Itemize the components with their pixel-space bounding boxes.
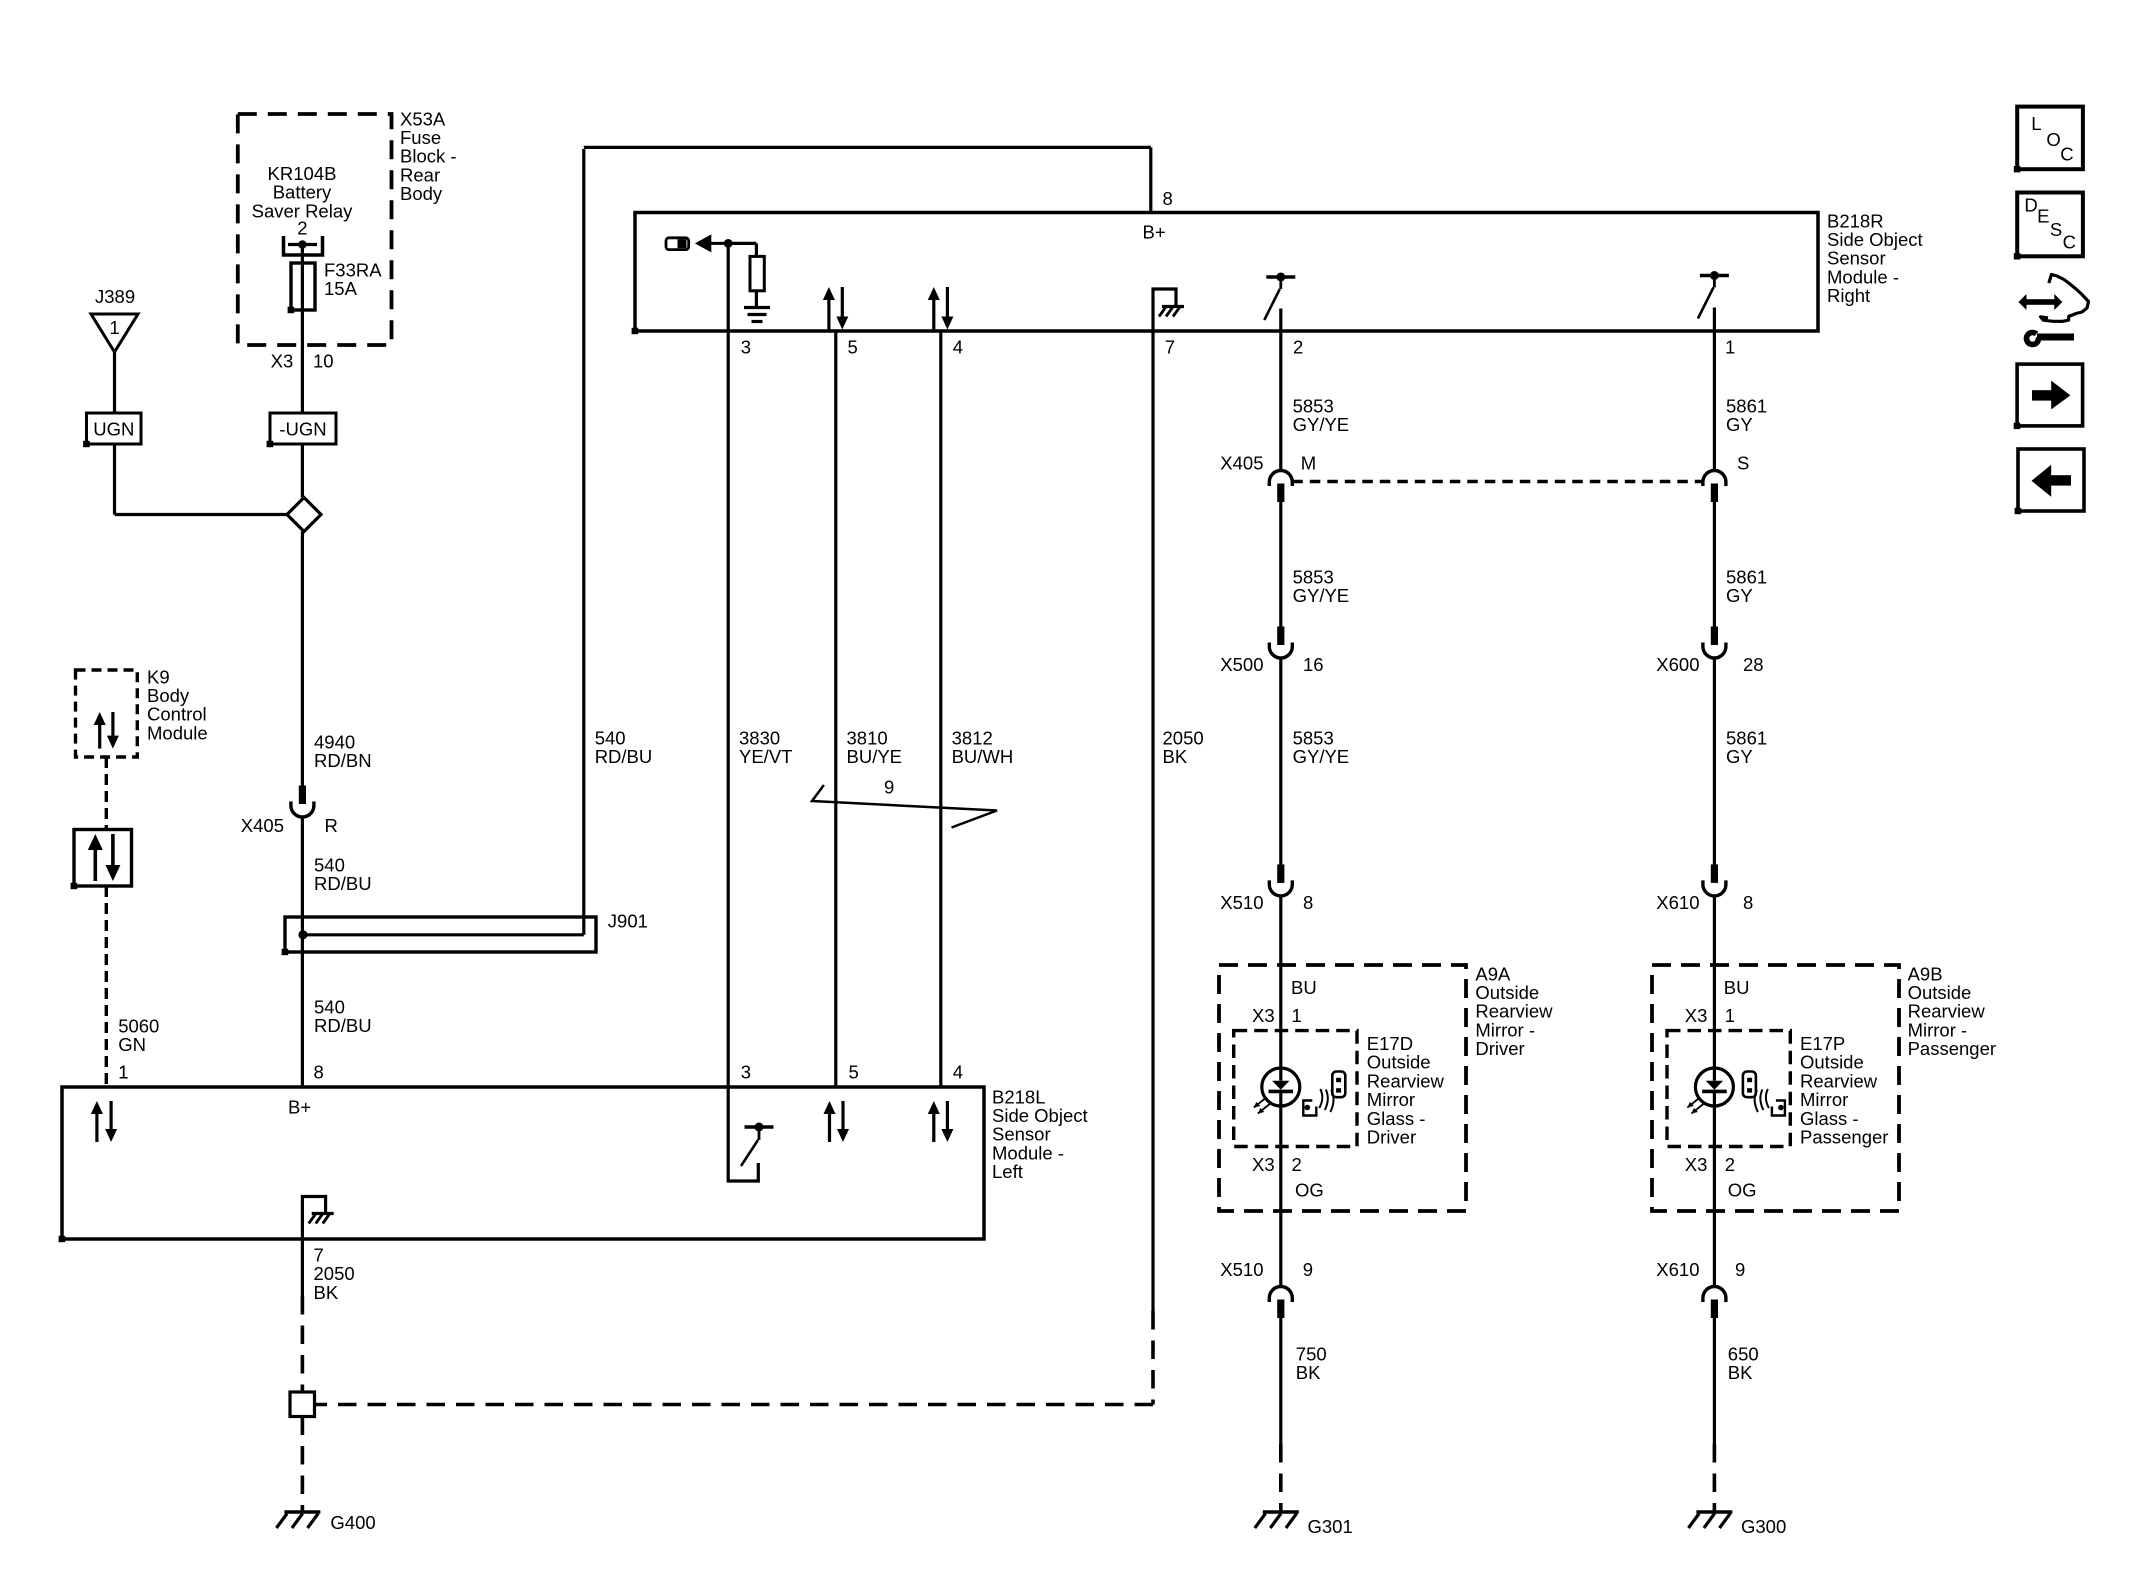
svg-text:RD/BU: RD/BU xyxy=(314,873,372,894)
svg-text:1: 1 xyxy=(1725,1005,1735,1026)
svg-text:BK: BK xyxy=(1296,1362,1321,1383)
svg-text:X3: X3 xyxy=(1685,1154,1708,1175)
svg-text:Driver: Driver xyxy=(1475,1038,1524,1059)
svg-text:RD/BN: RD/BN xyxy=(314,750,372,771)
svg-text:C: C xyxy=(2060,144,2073,165)
svg-text:C: C xyxy=(2063,232,2076,253)
svg-text:Passenger: Passenger xyxy=(1908,1038,1996,1059)
svg-text:B+: B+ xyxy=(1143,222,1166,243)
svg-text:9: 9 xyxy=(1735,1259,1745,1280)
svg-text:Driver: Driver xyxy=(1367,1127,1416,1148)
svg-text:E: E xyxy=(2037,206,2049,227)
svg-text:GY/YE: GY/YE xyxy=(1293,414,1350,435)
svg-text:5: 5 xyxy=(848,337,858,358)
svg-text:J901: J901 xyxy=(608,911,648,932)
svg-text:8: 8 xyxy=(1163,188,1173,209)
svg-text:9: 9 xyxy=(1303,1259,1313,1280)
svg-text:X3: X3 xyxy=(1685,1005,1708,1026)
svg-text:1: 1 xyxy=(1725,337,1735,358)
svg-text:10: 10 xyxy=(313,351,334,372)
svg-text:16: 16 xyxy=(1303,654,1324,675)
svg-text:3: 3 xyxy=(741,337,751,358)
svg-text:Body: Body xyxy=(400,183,443,204)
svg-text:Right: Right xyxy=(1827,285,1870,306)
svg-text:2: 2 xyxy=(1725,1154,1735,1175)
svg-text:GY: GY xyxy=(1726,585,1753,606)
svg-text:RD/BU: RD/BU xyxy=(314,1015,372,1036)
svg-text:9: 9 xyxy=(884,777,894,798)
svg-text:S: S xyxy=(1737,453,1749,474)
svg-text:YE/VT: YE/VT xyxy=(739,746,792,767)
svg-text:28: 28 xyxy=(1743,654,1764,675)
svg-text:2: 2 xyxy=(1292,1154,1302,1175)
svg-text:BU: BU xyxy=(1724,977,1750,998)
svg-text:2: 2 xyxy=(297,218,307,239)
svg-text:7: 7 xyxy=(1165,337,1175,358)
svg-text:GY: GY xyxy=(1726,746,1753,767)
svg-text:X600: X600 xyxy=(1656,654,1699,675)
svg-text:S: S xyxy=(2050,219,2062,240)
svg-text:X610: X610 xyxy=(1656,1259,1699,1280)
svg-text:X610: X610 xyxy=(1656,892,1699,913)
svg-text:OG: OG xyxy=(1728,1180,1757,1201)
svg-text:8: 8 xyxy=(1303,892,1313,913)
svg-text:Left: Left xyxy=(992,1161,1023,1182)
svg-text:Passenger: Passenger xyxy=(1800,1127,1888,1148)
svg-text:R: R xyxy=(325,815,338,836)
svg-text:D: D xyxy=(2024,195,2037,216)
svg-text:BK: BK xyxy=(1163,746,1188,767)
svg-text:X3: X3 xyxy=(1252,1154,1275,1175)
svg-text:GY/YE: GY/YE xyxy=(1293,746,1350,767)
svg-text:5: 5 xyxy=(849,1062,859,1083)
svg-text:BU: BU xyxy=(1291,977,1317,998)
svg-text:X510: X510 xyxy=(1220,1259,1263,1280)
svg-text:8: 8 xyxy=(314,1062,324,1083)
svg-text:4: 4 xyxy=(953,337,963,358)
svg-text:1: 1 xyxy=(109,317,119,338)
svg-text:Module: Module xyxy=(147,722,208,743)
svg-text:-UGN: -UGN xyxy=(279,418,326,439)
svg-text:G300: G300 xyxy=(1741,1516,1786,1537)
svg-text:L: L xyxy=(2031,113,2041,134)
svg-text:1: 1 xyxy=(118,1062,128,1083)
svg-text:15A: 15A xyxy=(324,278,358,299)
svg-text:X405: X405 xyxy=(241,815,284,836)
svg-text:BK: BK xyxy=(1728,1362,1753,1383)
svg-text:BK: BK xyxy=(314,1282,339,1303)
svg-text:B+: B+ xyxy=(288,1097,311,1118)
svg-text:3: 3 xyxy=(741,1062,751,1083)
svg-text:X3: X3 xyxy=(271,351,294,372)
svg-text:X510: X510 xyxy=(1220,892,1263,913)
svg-text:G301: G301 xyxy=(1308,1516,1353,1537)
svg-text:GN: GN xyxy=(118,1034,146,1055)
svg-text:BU/WH: BU/WH xyxy=(952,746,1014,767)
svg-text:1: 1 xyxy=(1292,1005,1302,1026)
svg-text:OG: OG xyxy=(1295,1180,1324,1201)
svg-text:2: 2 xyxy=(1293,337,1303,358)
svg-text:8: 8 xyxy=(1743,892,1753,913)
svg-text:GY/YE: GY/YE xyxy=(1293,585,1350,606)
svg-text:J389: J389 xyxy=(95,286,135,307)
svg-text:X500: X500 xyxy=(1220,654,1263,675)
svg-text:4: 4 xyxy=(953,1062,963,1083)
svg-text:O: O xyxy=(2046,129,2060,150)
svg-text:RD/BU: RD/BU xyxy=(595,746,653,767)
svg-text:UGN: UGN xyxy=(93,418,134,439)
svg-text:X405: X405 xyxy=(1220,453,1263,474)
svg-text:GY: GY xyxy=(1726,414,1753,435)
svg-text:BU/YE: BU/YE xyxy=(847,746,903,767)
svg-text:X3: X3 xyxy=(1252,1005,1275,1026)
svg-text:G400: G400 xyxy=(330,1512,375,1533)
svg-text:M: M xyxy=(1301,453,1316,474)
